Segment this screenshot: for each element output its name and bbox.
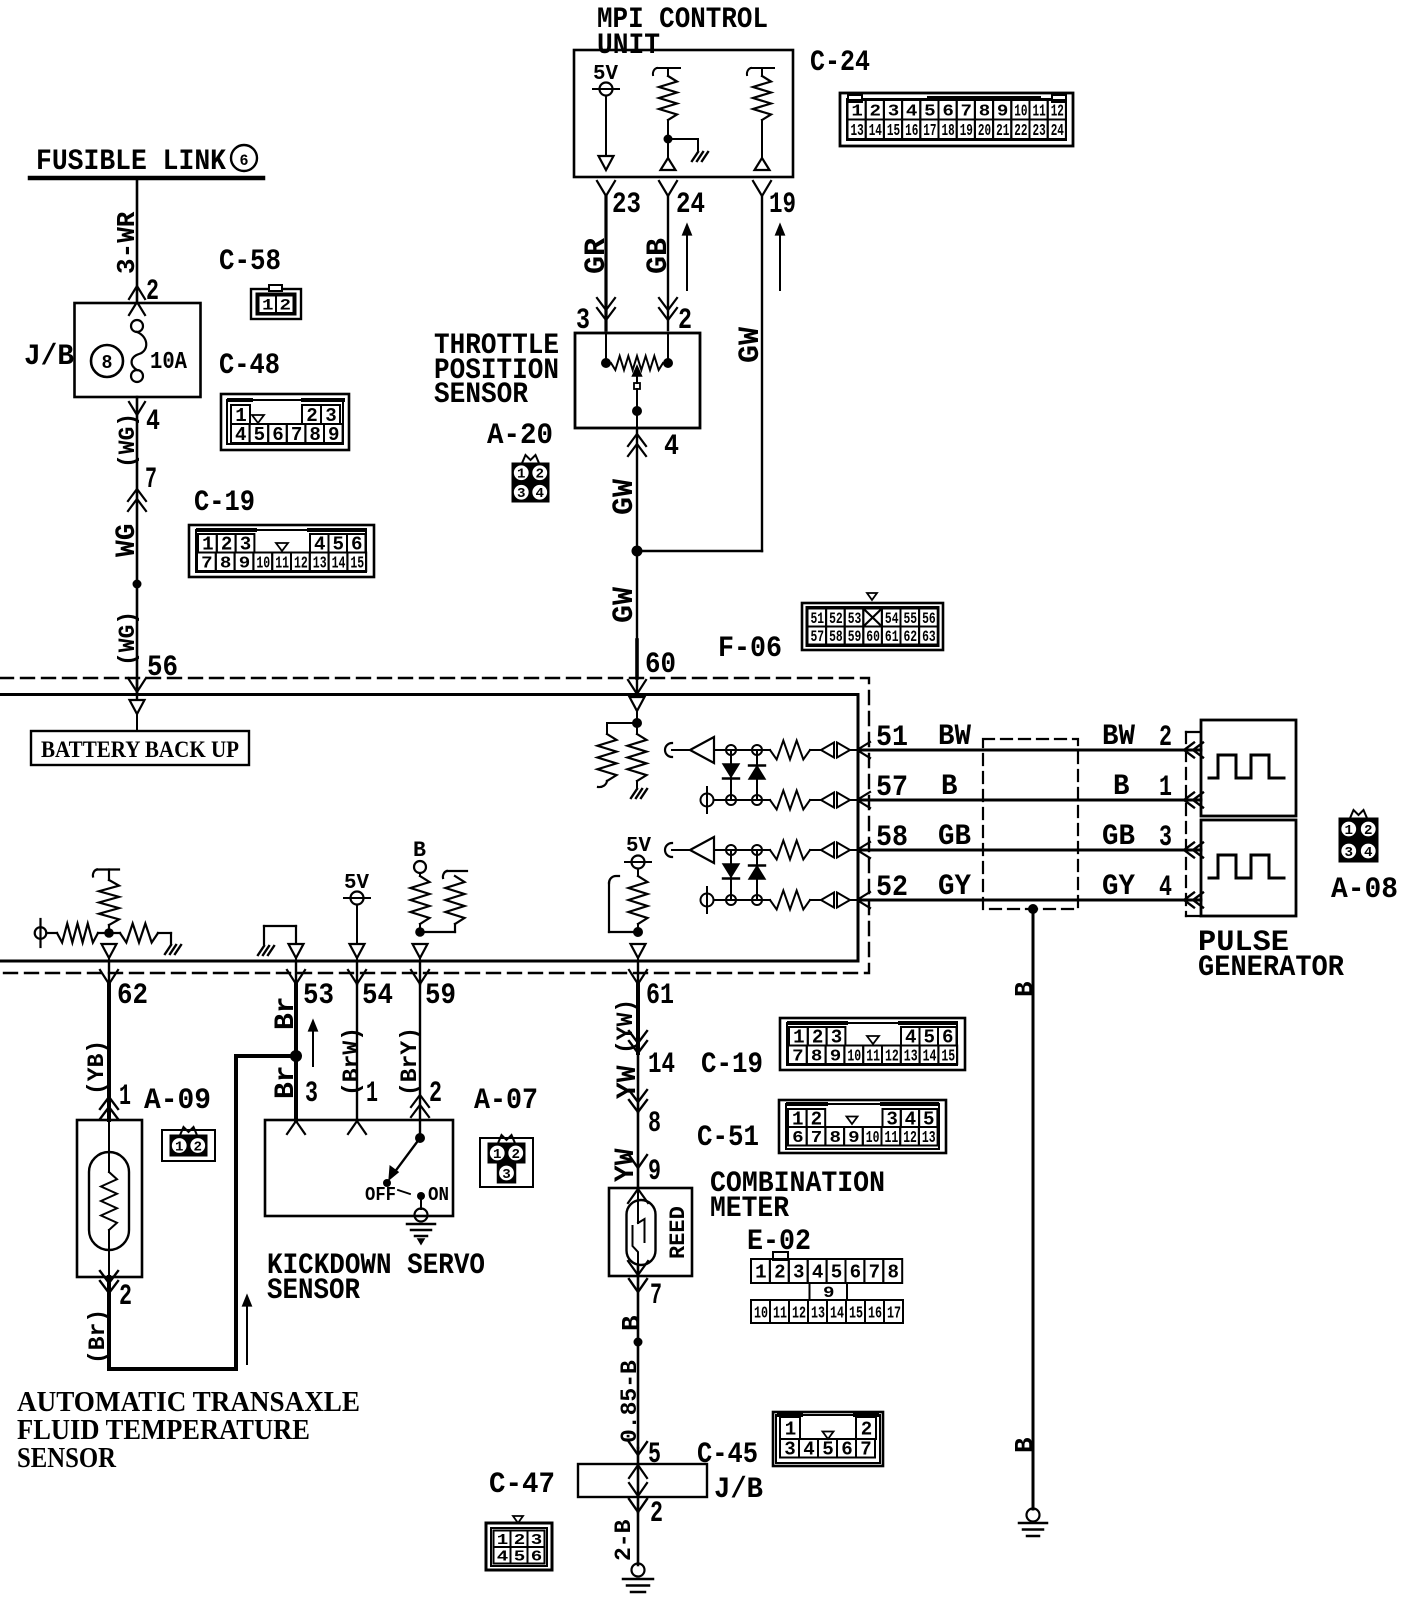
- svg-text:7: 7: [650, 1279, 662, 1313]
- pin 7 label: [650, 1279, 662, 1313]
- svg-text:BW: BW: [938, 720, 971, 754]
- flow triangle pin 19: [755, 158, 770, 170]
- svg-text:7: 7: [811, 1129, 823, 1148]
- ECU solid box: [0, 695, 858, 962]
- svg-text:4: 4: [1159, 871, 1172, 905]
- svg-text:9: 9: [848, 1129, 860, 1148]
- svg-text:18: 18: [942, 122, 955, 141]
- ECU channel row 57: [701, 787, 871, 813]
- junction block J/B bottom box: [578, 1464, 707, 1497]
- TPS pin 2 label: [678, 304, 692, 338]
- svg-text:3: 3: [502, 1167, 511, 1183]
- MPI control unit box: [574, 50, 793, 177]
- svg-text:GY: GY: [938, 870, 971, 904]
- svg-text:1: 1: [1159, 771, 1172, 805]
- svg-text:55: 55: [904, 610, 918, 628]
- label BW left: [938, 720, 971, 754]
- svg-text:(WG): (WG): [115, 413, 141, 468]
- svg-text:8: 8: [309, 424, 321, 446]
- svg-text:15: 15: [887, 122, 900, 141]
- svg-text:A-08: A-08: [1331, 873, 1398, 907]
- svg-text:10: 10: [754, 1304, 768, 1323]
- svg-text:2: 2: [1364, 823, 1373, 839]
- diode pair rows 58-52: [723, 850, 765, 900]
- svg-text:54: 54: [885, 610, 899, 628]
- svg-text:C-24: C-24: [810, 46, 870, 80]
- ECU channel row 58: [665, 837, 870, 863]
- svg-text:8: 8: [220, 555, 232, 574]
- flow triangle pin 61: [631, 944, 646, 958]
- svg-text:7: 7: [201, 555, 213, 574]
- svg-text:4: 4: [664, 430, 679, 464]
- svg-text:14: 14: [332, 555, 346, 574]
- label C-58: [219, 245, 281, 279]
- label PULSE GENERATOR: [1198, 926, 1344, 985]
- fork pin 62 at dashed line: [100, 970, 118, 984]
- pin 9 label: [648, 1155, 661, 1189]
- label C-24: [810, 46, 870, 80]
- svg-text:15: 15: [849, 1304, 863, 1323]
- svg-text:10: 10: [256, 555, 270, 574]
- svg-text:1: 1: [785, 1418, 797, 1440]
- ATF pin 1 label: [119, 1080, 131, 1114]
- label Br lower: [271, 1065, 302, 1099]
- arrow TPS pin 2: [659, 298, 677, 320]
- pin 60 label: [645, 648, 676, 682]
- pin 61 label: [646, 979, 674, 1013]
- resistor MPI right: [747, 68, 774, 158]
- kickdown servo box: [265, 1120, 453, 1216]
- pin 56 label: [147, 651, 178, 685]
- connector C-58: [251, 285, 301, 319]
- svg-text:BATTERY BACK UP: BATTERY BACK UP: [41, 737, 239, 762]
- label C-47: [489, 1468, 555, 1502]
- label B left: [941, 770, 958, 804]
- label J/B: [24, 340, 74, 374]
- label GY right: [1102, 870, 1135, 904]
- svg-text:C-51: C-51: [697, 1121, 759, 1155]
- label Br upper: [271, 996, 302, 1030]
- svg-text:GW: GW: [608, 479, 642, 515]
- arrow J/B pin 5: [629, 1442, 647, 1455]
- svg-text:10: 10: [847, 1048, 861, 1067]
- svg-text:58: 58: [829, 628, 843, 646]
- resistor left of pin60: [598, 723, 617, 787]
- pulse pin 4 label: [1159, 871, 1172, 905]
- wire 62 (YB): [107, 984, 111, 1120]
- label YW upper: [613, 1065, 644, 1099]
- svg-text:2: 2: [650, 1497, 663, 1531]
- svg-text:57: 57: [876, 771, 908, 805]
- reed switch box: [609, 1188, 692, 1276]
- wire triangle to junction: [636, 711, 638, 723]
- resistor right of pin60: [628, 723, 647, 787]
- junction dot B wire: [1028, 904, 1038, 914]
- svg-text:1: 1: [517, 467, 526, 483]
- pin 53 label: [303, 979, 334, 1013]
- svg-text:1: 1: [1345, 823, 1354, 839]
- svg-text:2: 2: [280, 297, 292, 315]
- label OFF: [365, 1184, 396, 1206]
- svg-text:9: 9: [830, 1048, 842, 1067]
- svg-text:1: 1: [755, 1261, 767, 1283]
- svg-text:WG: WG: [112, 523, 143, 557]
- label A-09: [144, 1084, 211, 1118]
- svg-text:2: 2: [774, 1261, 786, 1283]
- svg-text:60: 60: [866, 628, 880, 646]
- svg-text:5: 5: [254, 424, 266, 446]
- svg-text:7: 7: [869, 1261, 881, 1283]
- connector C-45: [773, 1412, 883, 1466]
- wire pin 54 across boundary: [356, 961, 358, 984]
- svg-text:5: 5: [822, 1439, 834, 1461]
- svg-text:2: 2: [119, 1280, 132, 1314]
- svg-text:2: 2: [194, 1139, 203, 1155]
- arrow TPS pin 3: [597, 298, 615, 320]
- svg-text:2: 2: [1159, 721, 1172, 755]
- TPS pin 3 label: [576, 304, 590, 338]
- arrow TPS pin 4 out: [628, 434, 646, 456]
- svg-text:1: 1: [366, 1077, 378, 1111]
- ECU channel row 52: [701, 887, 871, 913]
- svg-text:6: 6: [841, 1439, 853, 1461]
- resistor MPI middle: [653, 68, 680, 139]
- svg-text:FUSIBLE LINK: FUSIBLE LINK: [36, 145, 226, 179]
- label GW pin19: [734, 327, 768, 363]
- wire 54 (BrW): [356, 984, 358, 1120]
- svg-text:(WG): (WG): [115, 611, 141, 666]
- svg-text:5: 5: [648, 1438, 661, 1472]
- svg-text:57: 57: [811, 628, 825, 646]
- fork MPI pin 19: [753, 181, 771, 196]
- fork J/B out: [629, 1483, 647, 1496]
- svg-text:22: 22: [1014, 122, 1027, 141]
- ECU dashed boundary: [0, 678, 869, 973]
- svg-text:2: 2: [429, 1077, 442, 1111]
- fork pin 53 at dashed line: [287, 970, 305, 984]
- svg-text:B: B: [617, 1315, 647, 1331]
- arrow into J/B pin 2: [129, 286, 145, 315]
- svg-text:53: 53: [848, 610, 862, 628]
- svg-text:14: 14: [648, 1048, 675, 1082]
- pin 62 label: [117, 979, 148, 1013]
- wire ATF loop to kickdown: [109, 1056, 296, 1369]
- label GB: [642, 238, 676, 274]
- svg-text:23: 23: [612, 188, 641, 222]
- svg-text:54: 54: [362, 979, 393, 1013]
- svg-text:5: 5: [514, 1548, 526, 1565]
- ground hatch pin60: [631, 789, 647, 798]
- svg-text:8: 8: [830, 1129, 842, 1148]
- wire GW to pin 60: [636, 551, 638, 678]
- svg-text:16: 16: [905, 122, 918, 141]
- connector C-48: [221, 394, 349, 450]
- junction dot on WG wire: [133, 580, 142, 589]
- label F-06: [718, 632, 782, 666]
- svg-text:24: 24: [676, 188, 705, 222]
- flow triangle pin 53: [289, 944, 304, 958]
- svg-text:7: 7: [792, 1048, 804, 1067]
- fork reed out: [628, 1261, 648, 1275]
- svg-text:C-58: C-58: [219, 245, 281, 279]
- arrow ATF pin 1: [100, 1097, 118, 1119]
- pin 58 label: [876, 821, 908, 855]
- svg-text:3: 3: [1345, 845, 1354, 861]
- connector C-19 second: [780, 1018, 965, 1070]
- wire 60 into ECU: [636, 678, 638, 697]
- label WG: [112, 523, 143, 557]
- kickdown switch: [383, 1133, 425, 1209]
- svg-text:GW: GW: [734, 327, 768, 363]
- svg-text:Br: Br: [271, 996, 302, 1030]
- svg-text:10A: 10A: [150, 349, 188, 376]
- label GR: [580, 238, 614, 274]
- svg-text:52: 52: [829, 610, 843, 628]
- label THROTTLE POSITION SENSOR: [434, 329, 559, 412]
- label BW right: [1102, 720, 1135, 754]
- junction dot GW: [632, 546, 643, 557]
- wire (WG) J/B to ECU: [136, 397, 139, 694]
- svg-text:3: 3: [1159, 821, 1172, 855]
- svg-text:8: 8: [888, 1261, 900, 1283]
- svg-text:BW: BW: [1102, 720, 1135, 754]
- fork pin 60 at dashed boundary: [628, 680, 646, 694]
- label 0.85-B: [617, 1360, 643, 1443]
- pin 19 label: [769, 188, 796, 222]
- wire YW lower: [637, 1112, 640, 1188]
- svg-text:(BrW): (BrW): [339, 1027, 365, 1096]
- svg-text:AUTOMATIC TRANSAXLE: AUTOMATIC TRANSAXLE: [17, 1387, 360, 1418]
- label B meter: [617, 1315, 647, 1331]
- svg-text:J/B: J/B: [714, 1473, 763, 1507]
- svg-text:2: 2: [512, 1147, 521, 1163]
- pulse generator box 2: [1201, 820, 1296, 916]
- svg-text:6: 6: [792, 1129, 804, 1148]
- svg-text:(BrY): (BrY): [397, 1027, 423, 1096]
- svg-text:16: 16: [868, 1304, 882, 1323]
- svg-text:F-06: F-06: [718, 632, 782, 666]
- svg-text:3: 3: [793, 1261, 805, 1283]
- fork MPI pin 24: [659, 181, 677, 196]
- label AUTOMATIC TRANSAXLE FLUID TEMPERATURE SENSOR: [17, 1387, 360, 1474]
- svg-text:Br: Br: [271, 1065, 302, 1099]
- svg-text:GENERATOR: GENERATOR: [1198, 951, 1344, 985]
- kickdown pin 3 label: [305, 1077, 318, 1111]
- second resistor pin 59: [420, 871, 467, 932]
- svg-text:62: 62: [904, 628, 918, 646]
- 5V source pin 54: [344, 872, 370, 944]
- wire 59 to bottom: [419, 957, 421, 961]
- label ON: [428, 1184, 449, 1206]
- svg-text:8: 8: [811, 1048, 823, 1067]
- wire 3-WR fusible link to J/B: [136, 178, 139, 303]
- svg-text:YW: YW: [613, 1065, 644, 1099]
- wire 52 GY to pulse generator: [858, 899, 1201, 902]
- fork kickdown pin 3: [287, 1121, 305, 1134]
- wire YW mid: [637, 1053, 640, 1112]
- svg-text:FLUID TEMPERATURE: FLUID TEMPERATURE: [17, 1415, 310, 1446]
- svg-text:12: 12: [903, 1129, 917, 1148]
- label (Br): [85, 1309, 111, 1364]
- junction dot ATF input: [104, 928, 114, 938]
- svg-text:3: 3: [784, 1439, 796, 1461]
- svg-text:13: 13: [851, 122, 864, 141]
- label GB left: [938, 820, 971, 854]
- pin 52 label: [876, 871, 908, 905]
- svg-text:61: 61: [646, 979, 674, 1013]
- svg-text:1: 1: [262, 297, 274, 315]
- kickdown ground bracket: [258, 926, 296, 955]
- svg-text:(YW): (YW): [613, 999, 639, 1054]
- wire 61 to bottom: [637, 957, 639, 961]
- wire 54 to bottom: [356, 957, 358, 961]
- svg-text:12: 12: [792, 1304, 806, 1323]
- svg-text:GY: GY: [1102, 870, 1135, 904]
- svg-text:14: 14: [830, 1304, 844, 1323]
- direction arrow 53: [309, 1020, 318, 1066]
- svg-text:C-47: C-47: [489, 1468, 555, 1502]
- label GW mid: [608, 479, 642, 515]
- pin 24 label: [676, 188, 705, 222]
- square wave symbol 2: [1209, 855, 1284, 878]
- flow triangle battery backup: [130, 700, 145, 714]
- svg-text:3: 3: [517, 486, 526, 502]
- bus bar fusible link: [30, 176, 263, 181]
- wire pin 59 across boundary: [419, 961, 421, 984]
- svg-text:4: 4: [1364, 845, 1373, 861]
- svg-text:13: 13: [811, 1304, 825, 1323]
- wire 61 below reed: [637, 1265, 640, 1342]
- svg-text:19: 19: [960, 122, 973, 141]
- label B right: [1113, 770, 1130, 804]
- svg-text:20: 20: [978, 122, 991, 141]
- junction dot 53: [290, 1050, 302, 1062]
- battery back up box: [31, 731, 249, 765]
- svg-text:UNIT: UNIT: [597, 29, 660, 63]
- svg-text:62: 62: [117, 979, 148, 1013]
- svg-text:61: 61: [885, 628, 899, 646]
- label (YB): [84, 1040, 110, 1095]
- label C-51: [697, 1121, 759, 1155]
- label (WG) upper: [115, 413, 141, 468]
- pin 14 label: [648, 1048, 675, 1082]
- svg-text:9: 9: [239, 555, 251, 574]
- pulse pin 2 label: [1159, 721, 1172, 755]
- svg-text:11: 11: [773, 1304, 787, 1323]
- svg-text:5: 5: [831, 1261, 843, 1283]
- 5V source pin 61: [625, 835, 651, 932]
- flow triangle pin 54: [350, 944, 365, 958]
- wire 61 YW upper: [636, 984, 640, 1053]
- svg-text:7: 7: [145, 463, 157, 497]
- branch to left resistor: [607, 722, 637, 724]
- direction arrow GB: [683, 224, 692, 290]
- wire B pulse generator ground: [1032, 909, 1035, 1509]
- pulse pin 1 label: [1159, 771, 1172, 805]
- 5V supply in MPI: [593, 63, 619, 96]
- connector C-19: [189, 525, 374, 577]
- junction dot MPI: [664, 135, 673, 144]
- svg-text:2: 2: [861, 1418, 873, 1440]
- svg-text:0.85-B: 0.85-B: [617, 1360, 643, 1443]
- ECU channel row 51: [665, 737, 870, 763]
- svg-text:REED: REED: [666, 1206, 691, 1259]
- label (YW): [613, 999, 639, 1054]
- svg-text:B: B: [1113, 770, 1130, 804]
- svg-text:(YB): (YB): [84, 1040, 110, 1095]
- sensor input network ATF: [35, 919, 181, 954]
- svg-text:4: 4: [536, 486, 545, 502]
- connector E-02: [751, 1252, 903, 1323]
- pin 7 label: [145, 463, 157, 497]
- ATF pin 2 label: [119, 1280, 132, 1314]
- label A-08: [1331, 873, 1398, 907]
- TPS pin 4 label: [664, 430, 679, 464]
- svg-text:11: 11: [885, 1129, 899, 1148]
- wire GB pin24 to TPS pin2: [667, 196, 669, 330]
- fuse 10A symbol: [131, 320, 146, 382]
- svg-text:9: 9: [648, 1155, 661, 1189]
- label A-07: [474, 1084, 538, 1118]
- bracket resistor pin 61: [609, 876, 638, 932]
- svg-text:B: B: [1010, 981, 1040, 997]
- label BATTERY BACK UP: [41, 737, 239, 762]
- svg-text:13: 13: [922, 1129, 936, 1148]
- pin 2 label bottom: [650, 1497, 663, 1531]
- connector C-24: [840, 93, 1073, 146]
- direction arrow GW: [776, 224, 785, 290]
- label COMBINATION METER: [710, 1167, 885, 1226]
- svg-text:10: 10: [866, 1129, 880, 1148]
- svg-text:51: 51: [811, 610, 825, 628]
- svg-text:B: B: [1010, 1437, 1040, 1453]
- arrow into pulse generator BW: [1184, 743, 1203, 758]
- svg-text:21: 21: [996, 122, 1009, 141]
- svg-text:4: 4: [235, 424, 247, 446]
- kickdown pin 1 label: [366, 1077, 378, 1111]
- junction dot pin 59: [415, 927, 425, 937]
- B supply pin 59: [411, 838, 430, 932]
- svg-text:3-WR: 3-WR: [112, 211, 142, 274]
- svg-text:A-20: A-20: [487, 419, 553, 453]
- wire 5V to output: [605, 96, 607, 158]
- label GB right: [1102, 820, 1135, 854]
- wire 57 B to pulse generator: [858, 799, 1201, 802]
- wire 59 inside box: [419, 1120, 421, 1138]
- svg-text:SENSOR: SENSOR: [17, 1443, 117, 1474]
- ATF sensor box: [77, 1120, 142, 1277]
- arrow into pulse generator GY: [1184, 893, 1203, 908]
- svg-text:11: 11: [866, 1048, 880, 1067]
- svg-text:53: 53: [303, 979, 334, 1013]
- fork pin 56 at ECU dashed boundary: [128, 678, 146, 692]
- svg-text:4: 4: [803, 1439, 815, 1461]
- arrow out of J/B pin 4: [129, 402, 145, 415]
- svg-text:9: 9: [328, 424, 340, 446]
- svg-text:51: 51: [876, 721, 908, 755]
- label E-02: [747, 1225, 811, 1259]
- svg-text:8: 8: [102, 352, 113, 374]
- fork pin 61 at dashed line: [629, 970, 647, 984]
- label (BrY): [397, 1027, 423, 1096]
- svg-text:GW: GW: [608, 587, 642, 623]
- arrow below J/B: [629, 1499, 647, 1512]
- wire GR pin23 to TPS pin3: [604, 196, 607, 330]
- wire 53 Br: [294, 984, 298, 1120]
- svg-text:15: 15: [350, 555, 364, 574]
- label C-19: [194, 486, 255, 520]
- svg-text:1: 1: [175, 1139, 184, 1155]
